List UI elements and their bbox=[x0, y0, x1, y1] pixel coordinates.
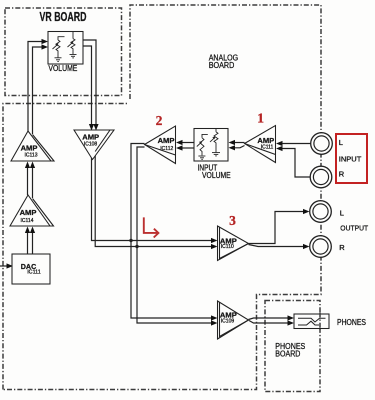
svg-text:VOLUME: VOLUME bbox=[48, 64, 77, 73]
svg-text:L: L bbox=[339, 138, 343, 147]
svg-text:1: 1 bbox=[257, 110, 264, 125]
svg-text:IC108: IC108 bbox=[84, 141, 98, 147]
svg-text:IC109: IC109 bbox=[221, 318, 235, 324]
svg-text:AMP: AMP bbox=[20, 208, 37, 217]
svg-text:IC110: IC110 bbox=[221, 244, 234, 250]
svg-text:IC114: IC114 bbox=[21, 218, 34, 224]
svg-text:OUTPUT: OUTPUT bbox=[340, 223, 368, 232]
svg-text:INPUT: INPUT bbox=[339, 155, 362, 164]
svg-text:IC113: IC113 bbox=[25, 152, 38, 158]
svg-text:PHONES: PHONES bbox=[337, 318, 366, 327]
svg-text:IC111: IC111 bbox=[261, 144, 274, 150]
svg-text:AMP: AMP bbox=[21, 143, 38, 152]
svg-text:VR BOARD: VR BOARD bbox=[40, 10, 87, 24]
svg-text:R: R bbox=[339, 170, 345, 179]
svg-text:L: L bbox=[340, 208, 344, 217]
svg-text:AMP: AMP bbox=[158, 136, 175, 145]
svg-text:BOARD: BOARD bbox=[275, 349, 300, 359]
svg-text:2: 2 bbox=[156, 113, 163, 128]
svg-text:IC111: IC111 bbox=[27, 269, 41, 275]
svg-text:R: R bbox=[339, 243, 345, 252]
svg-text:BOARD: BOARD bbox=[209, 60, 235, 70]
svg-text:3: 3 bbox=[229, 213, 236, 228]
svg-text:IC112: IC112 bbox=[160, 146, 173, 152]
svg-text:VOLUME: VOLUME bbox=[202, 171, 231, 180]
